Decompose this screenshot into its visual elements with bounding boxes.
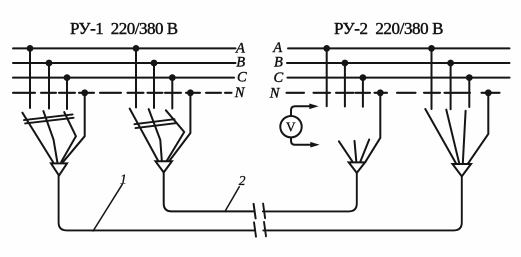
wire tap C2 <box>171 78 173 109</box>
funnel 3 free core left <box>339 141 353 162</box>
svg-text:1: 1 <box>120 172 127 187</box>
cable 1 break bar left <box>254 222 256 236</box>
core A slant (funnel 2 left edge) <box>130 109 158 161</box>
core B slant (funnel 4) <box>446 110 459 164</box>
wire tap N1 <box>63 93 84 162</box>
junction dot A3 <box>323 45 330 52</box>
junction dot C4 <box>466 74 473 81</box>
junction dot A4 <box>428 45 435 52</box>
voltmeter bottom probe lead <box>291 138 311 145</box>
funnel 3 free core right <box>360 140 369 162</box>
svg-text:2: 2 <box>239 173 246 188</box>
funnel 1 rim line upper <box>24 114 73 120</box>
label 2 leader line <box>226 187 240 211</box>
funnel 2 rim line lower <box>136 123 176 128</box>
core C slant (funnel 4) <box>463 111 466 164</box>
svg-text:B: B <box>274 55 283 71</box>
junction dot A2 <box>133 45 140 52</box>
core C slant (funnel 2 right edge) <box>166 110 184 160</box>
wire tap C4 <box>468 78 470 107</box>
svg-text:РУ-1 220/380 В: РУ-1 220/380 В <box>70 19 178 38</box>
junction dot N4 <box>485 89 492 96</box>
wire tap B4 <box>450 63 452 109</box>
svg-text:C: C <box>274 70 284 86</box>
svg-text:C: C <box>237 70 247 86</box>
svg-text:РУ-2 220/380 В: РУ-2 220/380 В <box>334 19 443 38</box>
cable 2 break bar left <box>254 204 256 219</box>
bus N (РУ-1, dashed) <box>13 92 35 94</box>
wire tap N3 <box>365 93 380 162</box>
core B slant <box>43 111 57 162</box>
wire tap B1 <box>48 63 50 109</box>
wire tap A1 <box>29 48 31 108</box>
voltmeter top probe arrowhead <box>309 104 318 110</box>
junction dot N1 <box>81 89 88 96</box>
cable 2 right run (break to РУ-2 funnel 3) <box>263 173 357 212</box>
funnel 4 apex triangle <box>453 164 472 176</box>
funnel 1 rim line lower <box>25 118 74 124</box>
cable 1 right run (break to РУ-2 funnel 4) <box>263 176 462 230</box>
cable 2 left run (from funnel 2 down to break) <box>164 172 255 211</box>
junction dot N2 <box>187 89 194 96</box>
bus A (РУ-2) <box>288 47 510 49</box>
wire tap B2 <box>153 63 155 108</box>
label 1 leader line <box>93 184 122 231</box>
voltmeter U1 circle <box>280 116 301 137</box>
junction dot B3 <box>342 60 349 67</box>
junction dot C1 <box>64 74 71 81</box>
bus B (РУ-2) <box>287 62 510 64</box>
voltmeter bottom probe arrowhead <box>310 142 319 148</box>
wire stub A3 <box>326 48 328 106</box>
funnel 3 apex triangle <box>349 162 365 173</box>
cable 1 break bar right <box>264 222 266 236</box>
funnel 2 rim line upper <box>134 119 174 124</box>
svg-text:V: V <box>286 120 296 135</box>
wire stub C3 <box>362 78 364 107</box>
wire tap N4 <box>468 93 489 164</box>
svg-text:B: B <box>236 55 245 71</box>
wire tap A4 <box>431 48 433 109</box>
wire tap A2 <box>135 48 137 107</box>
core C slant (funnel 1 right edge) <box>61 112 76 162</box>
core A slant (funnel 1 left edge) <box>22 113 53 163</box>
junction dot B4 <box>447 60 454 67</box>
cable 2 break bar right <box>263 204 265 219</box>
bus A (РУ-1) <box>13 47 236 49</box>
core A slant (funnel 4) <box>425 109 456 164</box>
voltmeter top probe lead <box>291 106 310 116</box>
junction dot C2 <box>169 74 176 81</box>
wire tap C1 <box>66 78 68 109</box>
junction dot B1 <box>46 60 53 67</box>
funnel 3 free core middle <box>355 141 357 162</box>
bus C (РУ-1) <box>13 77 234 79</box>
bus C (РУ-2) <box>288 77 510 79</box>
wire tap N2 <box>169 93 191 162</box>
funnel 1 apex triangle <box>51 163 67 175</box>
junction dot N3 <box>377 89 384 96</box>
funnel 2 apex triangle <box>156 161 172 172</box>
svg-text:N: N <box>269 85 281 101</box>
bus N (РУ-2, dashed) <box>287 92 305 94</box>
core B slant <box>149 109 162 160</box>
junction dot A1 <box>27 45 34 52</box>
wire stub B3 <box>344 63 346 107</box>
junction dot B2 <box>151 60 158 67</box>
junction dot C3 <box>360 74 367 81</box>
bus B (РУ-1) <box>13 62 236 64</box>
cable 1 left run (from funnel 1 down to break) <box>59 176 255 231</box>
svg-text:N: N <box>234 85 246 101</box>
